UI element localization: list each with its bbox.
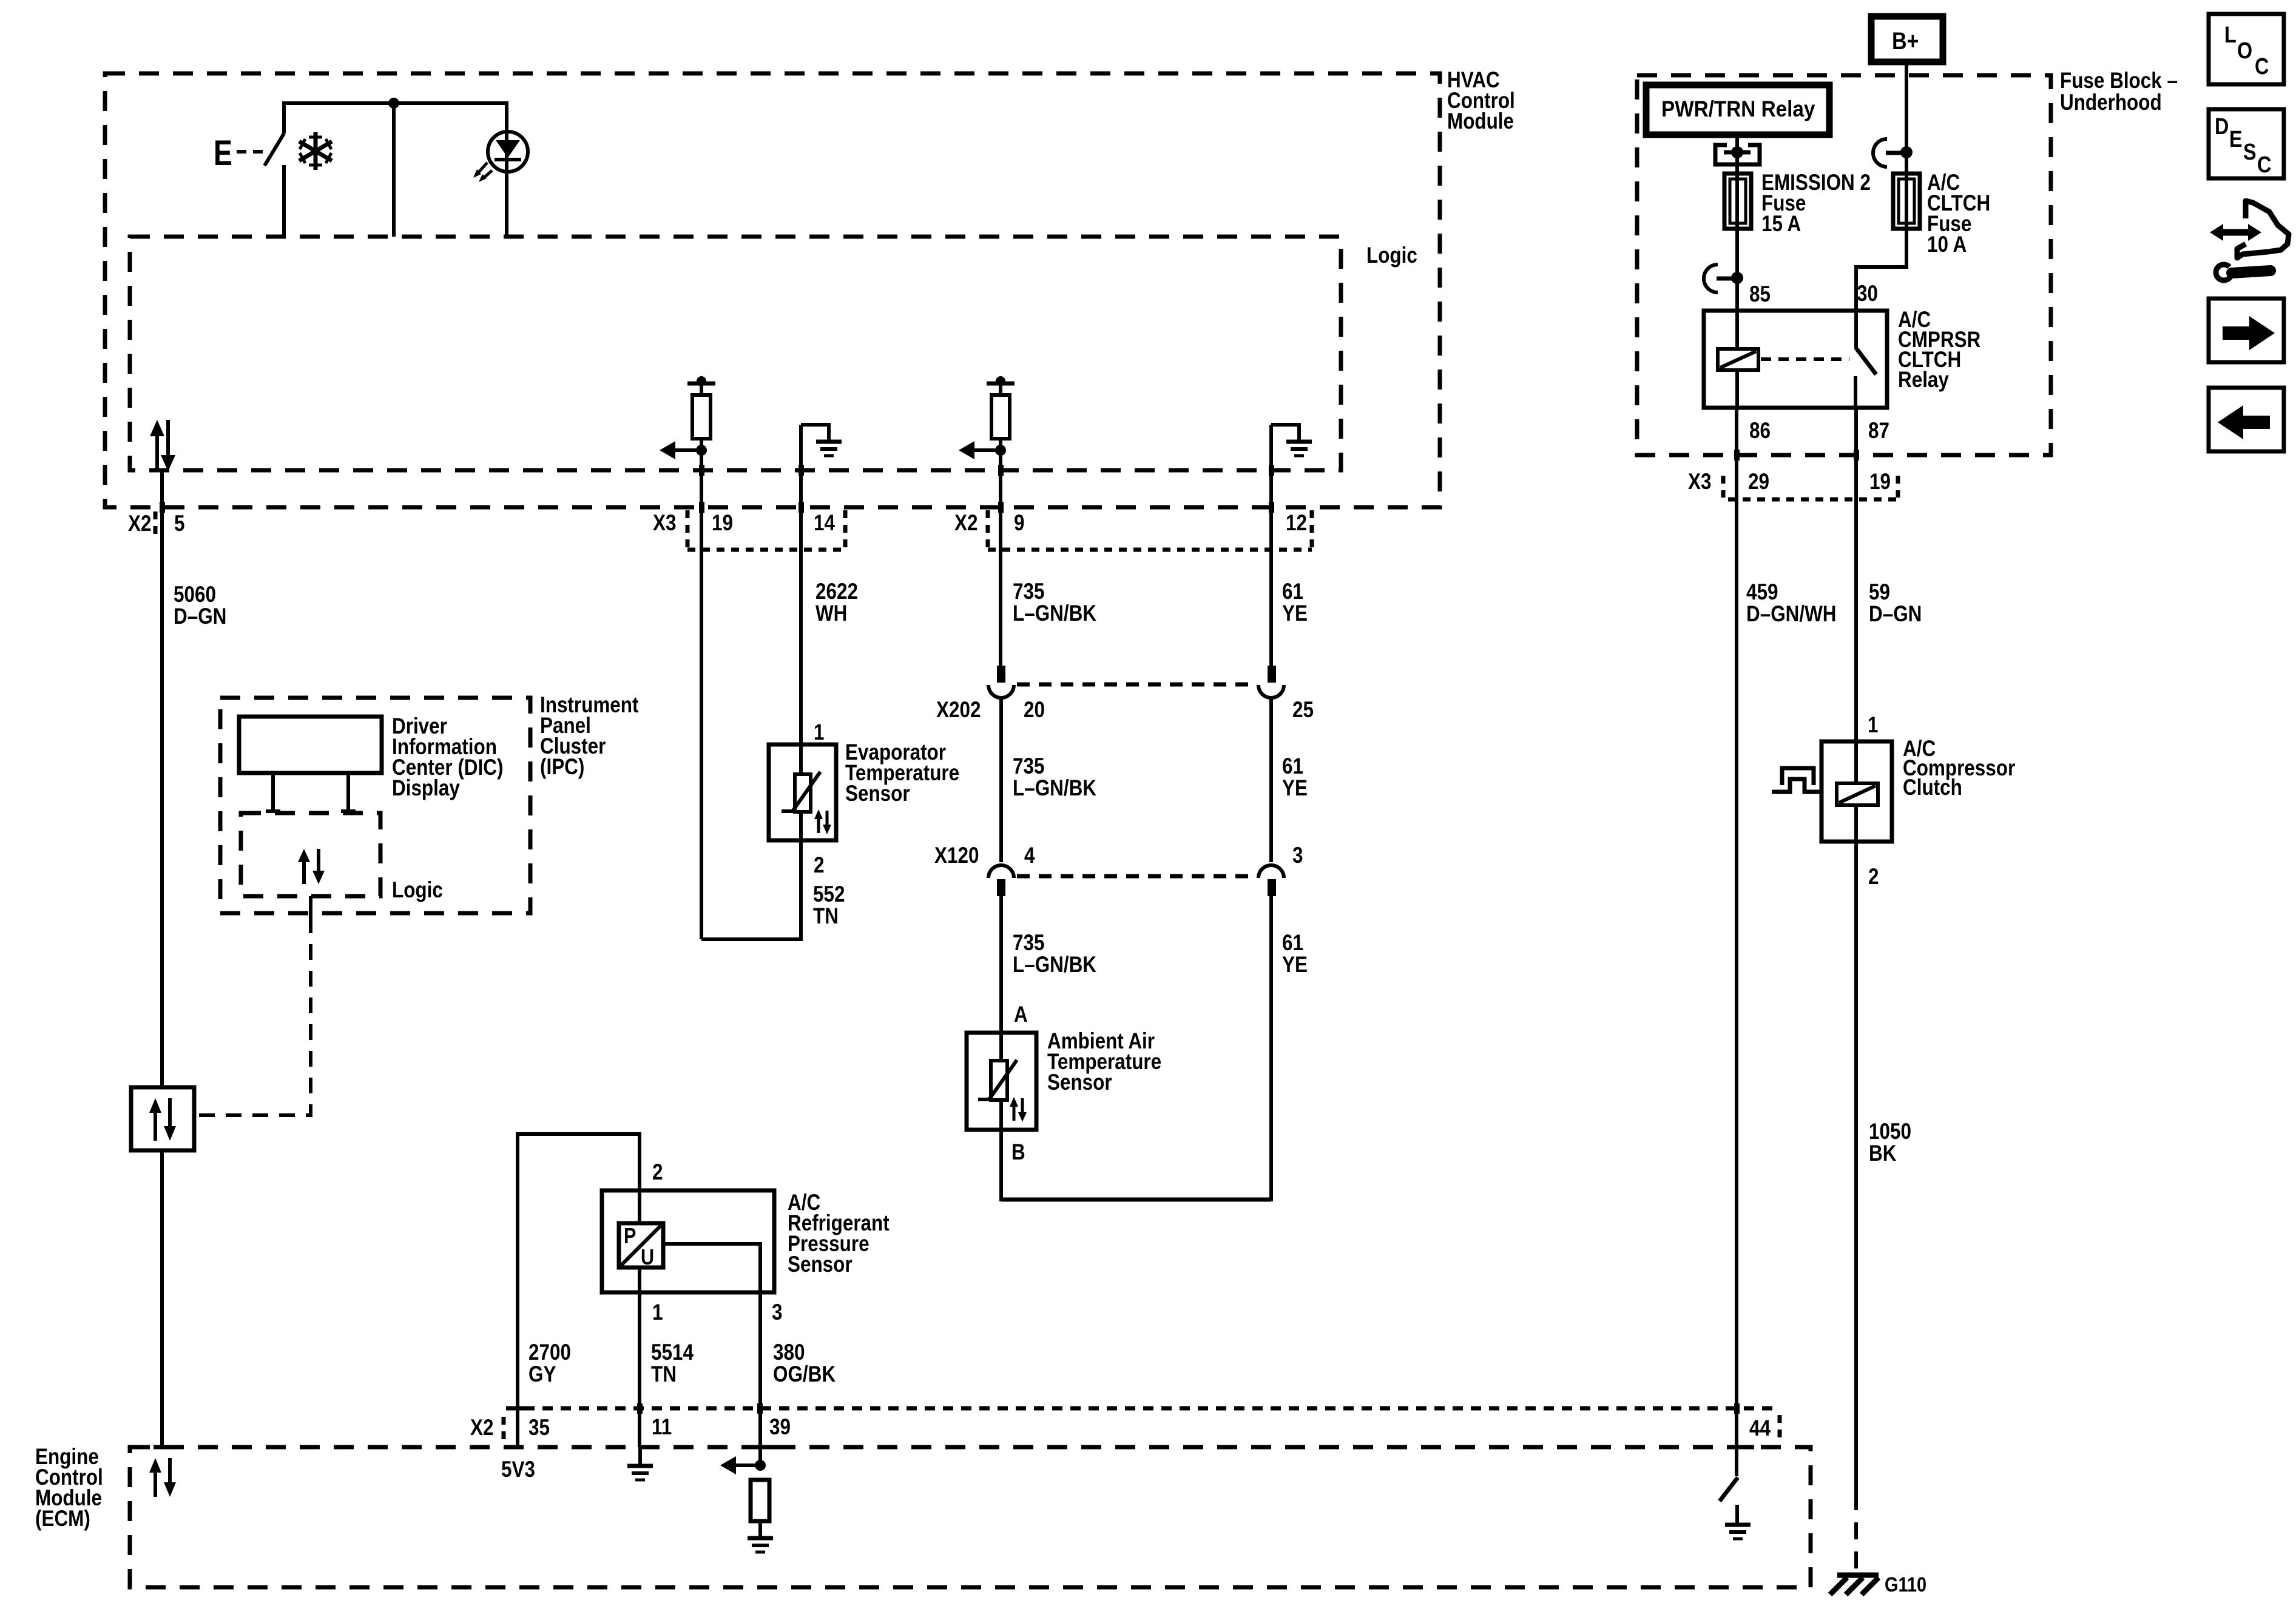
svg-text:85: 85	[1749, 282, 1771, 307]
symbol: bidirectional arrows (joint)	[149, 1098, 176, 1141]
wire: dashed serial data link	[194, 917, 311, 1115]
ground: logic ground pin 12	[1271, 425, 1312, 456]
symbol: output arrow (pin 39)	[720, 1456, 757, 1474]
svg-text:3: 3	[772, 1300, 782, 1325]
relay K2: A/C CMPRSR CLTCH Relay box	[1704, 311, 1887, 408]
module box: Instrument Panel Cluster	[220, 698, 530, 913]
resistor R3: ECM pull-down	[751, 1480, 769, 1537]
node: junction pin 39	[755, 1460, 766, 1471]
svg-text:Clutch: Clutch	[1903, 775, 1962, 800]
svg-text:25: 25	[1292, 698, 1314, 723]
wire: pin 12 leg	[1269, 425, 1274, 666]
svg-text:X2: X2	[470, 1416, 493, 1440]
svg-text:30: 30	[1857, 282, 1878, 306]
clutch L1: A/C Compressor Clutch box	[1822, 741, 1892, 842]
node: junction pin 9	[995, 445, 1006, 456]
label: A/C CMPRSR CLTCH Relay	[1898, 308, 1980, 393]
svg-text:Sensor: Sensor	[1047, 1070, 1112, 1095]
svg-text:U: U	[641, 1246, 654, 1270]
module box: Fuse Block - Underhood	[1637, 75, 2051, 455]
icon: left arrow box	[2209, 388, 2284, 451]
wire: 59 D-GN	[1854, 408, 1859, 741]
svg-text:E: E	[214, 133, 232, 173]
svg-text:5: 5	[174, 511, 184, 536]
switch: ECM low-side driver pin 44	[1720, 1477, 1738, 1524]
module box: HVAC Control Module	[105, 73, 1440, 507]
sensor B1: Evaporator Temperature Sensor box	[769, 744, 836, 840]
svg-text:1: 1	[1868, 713, 1878, 738]
wire: relay to fuse	[1735, 135, 1739, 174]
svg-text:Sensor: Sensor	[845, 781, 910, 806]
wire: pin 14 leg 2622 WH	[799, 425, 804, 744]
svg-text:P: P	[624, 1224, 636, 1249]
svg-text:10 A: 10 A	[1927, 232, 1967, 257]
node: junction pin 85	[1731, 272, 1743, 284]
svg-text:YE: YE	[1282, 776, 1308, 801]
relay K1: PWR/TRN Relay box	[1646, 85, 1829, 135]
label: Driver Information Center (DIC) Display	[392, 714, 503, 801]
sensor B2: Ambient Air Temperature Sensor box	[967, 1033, 1036, 1130]
node: junction above A/C CLTCH fuse	[1900, 146, 1913, 158]
label: pin 2 (pressure)	[652, 1160, 663, 1185]
svg-text:19: 19	[712, 511, 733, 536]
wire: fuse jog to pin 30	[1856, 229, 1906, 311]
wire: U output to pin 3	[663, 1244, 760, 1463]
svg-text:L–GN/BK: L–GN/BK	[1013, 953, 1096, 977]
wire: middle leg	[392, 101, 396, 237]
svg-text:L–GN/BK: L–GN/BK	[1013, 601, 1096, 626]
wire: 1050 BK dashed tail	[1854, 1493, 1858, 1576]
svg-text:X202: X202	[936, 698, 981, 723]
wire label: 735 L-GN/BK (1)	[1013, 579, 1096, 626]
svg-text:X120: X120	[934, 843, 979, 868]
svg-text:L–GN/BK: L–GN/BK	[1013, 776, 1096, 801]
label: Engine Control Module (ECM)	[35, 1445, 103, 1531]
label: Ambient Air Temperature Sensor	[1047, 1029, 1161, 1095]
thermistor symbol (ambient)	[978, 896, 1017, 1201]
ground: ECM pin 11	[627, 1447, 653, 1480]
svg-text:TN: TN	[651, 1362, 677, 1387]
svg-text:2700: 2700	[528, 1340, 571, 1365]
icon: LED light arrows	[473, 163, 492, 182]
svg-text:735: 735	[1013, 931, 1044, 956]
wire: 61 YE leg	[1269, 896, 1273, 1201]
ground: ECM driver ground	[1725, 1525, 1751, 1539]
wire: DIC legs	[266, 773, 356, 813]
symbol: output arrow (pin 19)	[660, 441, 698, 459]
svg-text:9: 9	[1014, 511, 1024, 536]
label: 44	[1749, 1416, 1771, 1441]
svg-text:2622: 2622	[815, 579, 858, 604]
svg-text:D: D	[2215, 114, 2229, 140]
svg-text:2: 2	[814, 853, 824, 878]
wire: pin 9 leg	[998, 450, 1004, 666]
node: junction pin 19	[696, 445, 707, 456]
ground G110 (chassis)	[1830, 1575, 1879, 1595]
LED D1: A/C indicator	[488, 101, 528, 237]
svg-text:Fuse Block –: Fuse Block –	[2060, 69, 2178, 93]
symbol: output arrow (pin 9)	[959, 441, 998, 459]
label: pin A	[1014, 1002, 1028, 1027]
relay contact switch	[1855, 311, 1876, 408]
wire: E dashed link	[237, 150, 265, 154]
sensor B3: A/C Refrigerant Pressure Sensor box	[602, 1190, 774, 1292]
label: HVAC Control Module	[1447, 68, 1515, 134]
svg-text:B+: B+	[1892, 27, 1919, 54]
hook: A/C CLTCH fuse tap	[1873, 139, 1903, 167]
symbol: small arrows (ambient)	[1010, 1097, 1027, 1122]
wire label: 61 YE (3)	[1282, 931, 1308, 977]
svg-text:Logic: Logic	[1366, 243, 1417, 268]
svg-text:OG/BK: OG/BK	[773, 1362, 836, 1387]
svg-text:(IPC): (IPC)	[540, 755, 584, 780]
svg-text:S: S	[2243, 140, 2257, 165]
svg-text:X3: X3	[653, 511, 676, 536]
svg-text:G110: G110	[1885, 1573, 1926, 1596]
svg-text:380: 380	[773, 1340, 805, 1365]
connector X3 pins 19/14	[653, 510, 845, 550]
svg-text:735: 735	[1013, 754, 1044, 779]
label: G110	[1885, 1573, 1926, 1596]
wire: 61 mid	[1269, 698, 1273, 862]
svg-text:YE: YE	[1282, 953, 1308, 977]
svg-text:5V3: 5V3	[501, 1457, 535, 1482]
label: Logic	[1366, 243, 1417, 268]
joint box: serial data junction	[131, 1087, 194, 1150]
wire ticks at ECM edge	[640, 1445, 1754, 1450]
label: E	[214, 133, 232, 173]
icon: wrench with arrows	[2210, 201, 2289, 280]
svg-text:19: 19	[1869, 470, 1891, 495]
svg-text:C: C	[2255, 54, 2269, 79]
connector X120 pin 4	[988, 865, 1014, 896]
svg-text:459: 459	[1746, 580, 1778, 605]
label: Fuse Block - Underhood	[2060, 69, 2178, 115]
connector X202 pin 20	[988, 666, 1014, 698]
label: pin 1 (evap)	[814, 720, 824, 745]
label: pin 2 (evap)	[814, 853, 824, 878]
logic box: HVAC Logic	[130, 237, 1341, 470]
svg-text:YE: YE	[1282, 601, 1308, 626]
wire label: 61 YE (2)	[1282, 754, 1308, 801]
label: A/C CLTCH Fuse 10 A	[1927, 170, 1990, 257]
svg-text:61: 61	[1282, 754, 1303, 779]
svg-text:Relay: Relay	[1898, 368, 1949, 393]
svg-text:552: 552	[813, 882, 845, 907]
wire label: 2700 GY	[528, 1340, 571, 1387]
wire label: 735 L-GN/BK (3)	[1013, 931, 1096, 977]
svg-text:X2: X2	[954, 511, 977, 536]
svg-text:61: 61	[1282, 931, 1303, 956]
wire: 2700 GY loop	[518, 1134, 640, 1447]
wire label: 735 L-GN/BK (2)	[1013, 754, 1096, 801]
svg-text:2: 2	[1868, 865, 1879, 890]
relay coil	[1718, 311, 1758, 408]
label: A/C Refrigerant Pressure Sensor	[788, 1190, 890, 1277]
wire label: 5514 TN	[651, 1340, 694, 1387]
svg-text:D–GN: D–GN	[174, 604, 226, 629]
label: A/C Compressor Clutch	[1903, 737, 2015, 800]
terminal cup below PWR/TRN	[1715, 145, 1760, 164]
wire label: 1050 BK	[1869, 1119, 1911, 1166]
wire label: 5060 D-GN	[174, 582, 226, 629]
svg-text:PWR/TRN Relay: PWR/TRN Relay	[1661, 96, 1815, 121]
svg-text:L: L	[2224, 22, 2237, 48]
svg-text:5514: 5514	[651, 1340, 694, 1365]
svg-text:Underhood: Underhood	[2060, 90, 2162, 115]
svg-text:A: A	[1014, 1002, 1028, 1027]
svg-text:3: 3	[1292, 843, 1303, 868]
wire: dashed coil-contact link	[1761, 357, 1849, 361]
svg-text:C: C	[2257, 152, 2271, 178]
fuse F2: A/C CLTCH Fuse 10 A	[1893, 174, 1920, 229]
fuse F1: EMISSION 2 Fuse 15 A	[1724, 174, 1751, 229]
svg-text:WH: WH	[815, 601, 847, 626]
wire: X120 dashed pairing	[1017, 874, 1255, 879]
symbol: clutch mechanical link	[1772, 768, 1822, 792]
svg-text:X2: X2	[128, 511, 151, 536]
wire: pin 19 leg	[699, 450, 704, 939]
symbol: small arrows (evap)	[814, 809, 831, 834]
svg-text:O: O	[2237, 38, 2252, 64]
symbol: HVAC bidirectional arrows	[150, 420, 175, 471]
label: pin 2 (clutch)	[1868, 865, 1879, 890]
resistor R2: pull-up above pin 9	[987, 376, 1015, 452]
svg-text:TN: TN	[813, 904, 839, 929]
wire: X2-5 entry tick	[154, 1445, 172, 1450]
svg-text:1: 1	[652, 1300, 663, 1325]
wire label: 552 TN	[813, 882, 845, 929]
svg-text:87: 87	[1868, 419, 1889, 444]
svg-text:35: 35	[528, 1416, 550, 1440]
svg-text:5060: 5060	[174, 582, 216, 607]
wire: fuse to relay coil	[1735, 229, 1739, 311]
svg-text:E: E	[2229, 127, 2243, 152]
symbol: bidirectional arrows (ECM)	[149, 1458, 176, 1497]
wire: B+ feed	[1905, 62, 1908, 174]
svg-text:86: 86	[1749, 419, 1771, 444]
wire: 459 D-GN/WH	[1734, 408, 1740, 1476]
module box: Engine Control Module	[130, 1447, 1811, 1587]
icon: snowflake	[299, 132, 332, 170]
label: EMISSION 2 Fuse 15 A	[1761, 170, 1871, 237]
wire: IPC logic stub	[309, 896, 312, 917]
svg-text:11: 11	[652, 1415, 672, 1440]
symbol: P/U transducer	[619, 1223, 663, 1270]
node: top bus junction	[388, 98, 399, 109]
wire: ambient return bottom	[1001, 1198, 1271, 1202]
wire: 5060 D-GN lower	[160, 1150, 164, 1447]
connector X120 pin 3	[1258, 865, 1284, 896]
wire: 5514 TN	[638, 1268, 641, 1447]
wire label: 59 D-GN	[1869, 580, 1922, 627]
label: 85 / 30	[1749, 282, 1878, 307]
label: pins 1 and 3 (pressure)	[652, 1300, 782, 1325]
clutch coil	[1837, 741, 1878, 842]
wire: 735 mid	[999, 698, 1003, 862]
svg-text:39: 39	[769, 1415, 791, 1440]
svg-text:D–GN/WH: D–GN/WH	[1746, 602, 1836, 627]
svg-text:Display: Display	[392, 776, 460, 801]
display: DIC display box	[239, 717, 382, 773]
icon: LOC box	[2209, 14, 2284, 84]
svg-text:59: 59	[1869, 580, 1890, 605]
svg-text:BK: BK	[1869, 1141, 1897, 1166]
svg-text:1050: 1050	[1869, 1119, 1911, 1144]
svg-text:B: B	[1011, 1140, 1025, 1165]
svg-text:44: 44	[1749, 1416, 1771, 1441]
svg-text:61: 61	[1282, 579, 1303, 604]
wire: X202 dashed pairing	[1017, 683, 1255, 687]
wire ticks at ECM connector	[508, 1403, 1740, 1414]
ground: below R3	[748, 1538, 773, 1552]
svg-text:Module: Module	[1447, 109, 1514, 134]
wire label: 61 YE (1)	[1282, 579, 1308, 626]
svg-text:20: 20	[1024, 698, 1045, 723]
svg-text:4: 4	[1024, 843, 1035, 868]
label: 5V3	[501, 1457, 535, 1482]
svg-text:GY: GY	[528, 1362, 556, 1387]
hook: tap above relay pin 85	[1704, 265, 1734, 292]
icon: right arrow box	[2209, 299, 2284, 362]
svg-text:735: 735	[1013, 579, 1044, 604]
svg-text:2: 2	[652, 1160, 663, 1185]
wire: 1050 BK solid	[1854, 842, 1858, 1493]
svg-text:29: 29	[1748, 470, 1769, 495]
icon: DESC box	[2209, 109, 2284, 178]
svg-text:12: 12	[1286, 511, 1307, 536]
logic box: IPC Logic	[241, 813, 380, 896]
connector X202 pin 25	[1258, 666, 1284, 698]
switch S1: A/C request switch E	[265, 101, 284, 237]
svg-text:Sensor: Sensor	[788, 1252, 853, 1277]
label: Instrument Panel Cluster (IPC)	[540, 693, 639, 780]
label: pin 1 (clutch)	[1868, 713, 1878, 738]
connector X2 pin 5	[128, 507, 184, 539]
resistor R1: pull-up above pin 19	[687, 376, 715, 452]
svg-text:D–GN: D–GN	[1869, 602, 1922, 627]
svg-text:Logic: Logic	[392, 878, 443, 903]
label: X202 20 25	[936, 698, 1314, 723]
label: X120 4 3	[934, 843, 1303, 868]
label: pin B	[1011, 1140, 1025, 1165]
svg-text:1: 1	[814, 720, 824, 745]
ground: logic ground pin 14	[801, 425, 842, 456]
connector X2 pins 35/11/39 strip	[504, 1408, 1780, 1440]
svg-text:14: 14	[814, 511, 835, 536]
label: 86 / 87	[1749, 419, 1889, 444]
label: Logic (IPC)	[392, 878, 443, 903]
thermistor symbol (evap)	[782, 744, 820, 840]
svg-text:X3: X3	[1688, 470, 1711, 495]
wire label: 2622 WH	[815, 579, 858, 626]
terminal B+ box	[1871, 16, 1943, 62]
connector X3 pins 29/19 (fuse block)	[1688, 470, 1898, 499]
node: junction above EMISSION 2 fuse	[1724, 146, 1751, 158]
connector X2 pins 9/12	[954, 510, 1312, 550]
wire: 552 TN loop	[701, 840, 801, 939]
wire label: 380 OG/BK	[773, 1340, 836, 1387]
label: Evaporator Temperature Sensor	[845, 740, 959, 806]
wire: switch/LED top bus	[284, 101, 507, 105]
svg-text:15 A: 15 A	[1761, 212, 1801, 237]
symbol: bidirectional arrows (IPC logic)	[298, 849, 325, 884]
label: X2 35 11 39	[470, 1415, 791, 1440]
wire label: 459 D-GN/WH	[1746, 580, 1836, 627]
svg-text:(ECM): (ECM)	[35, 1507, 90, 1531]
wire: 5060 D-GN upper	[160, 470, 165, 1087]
